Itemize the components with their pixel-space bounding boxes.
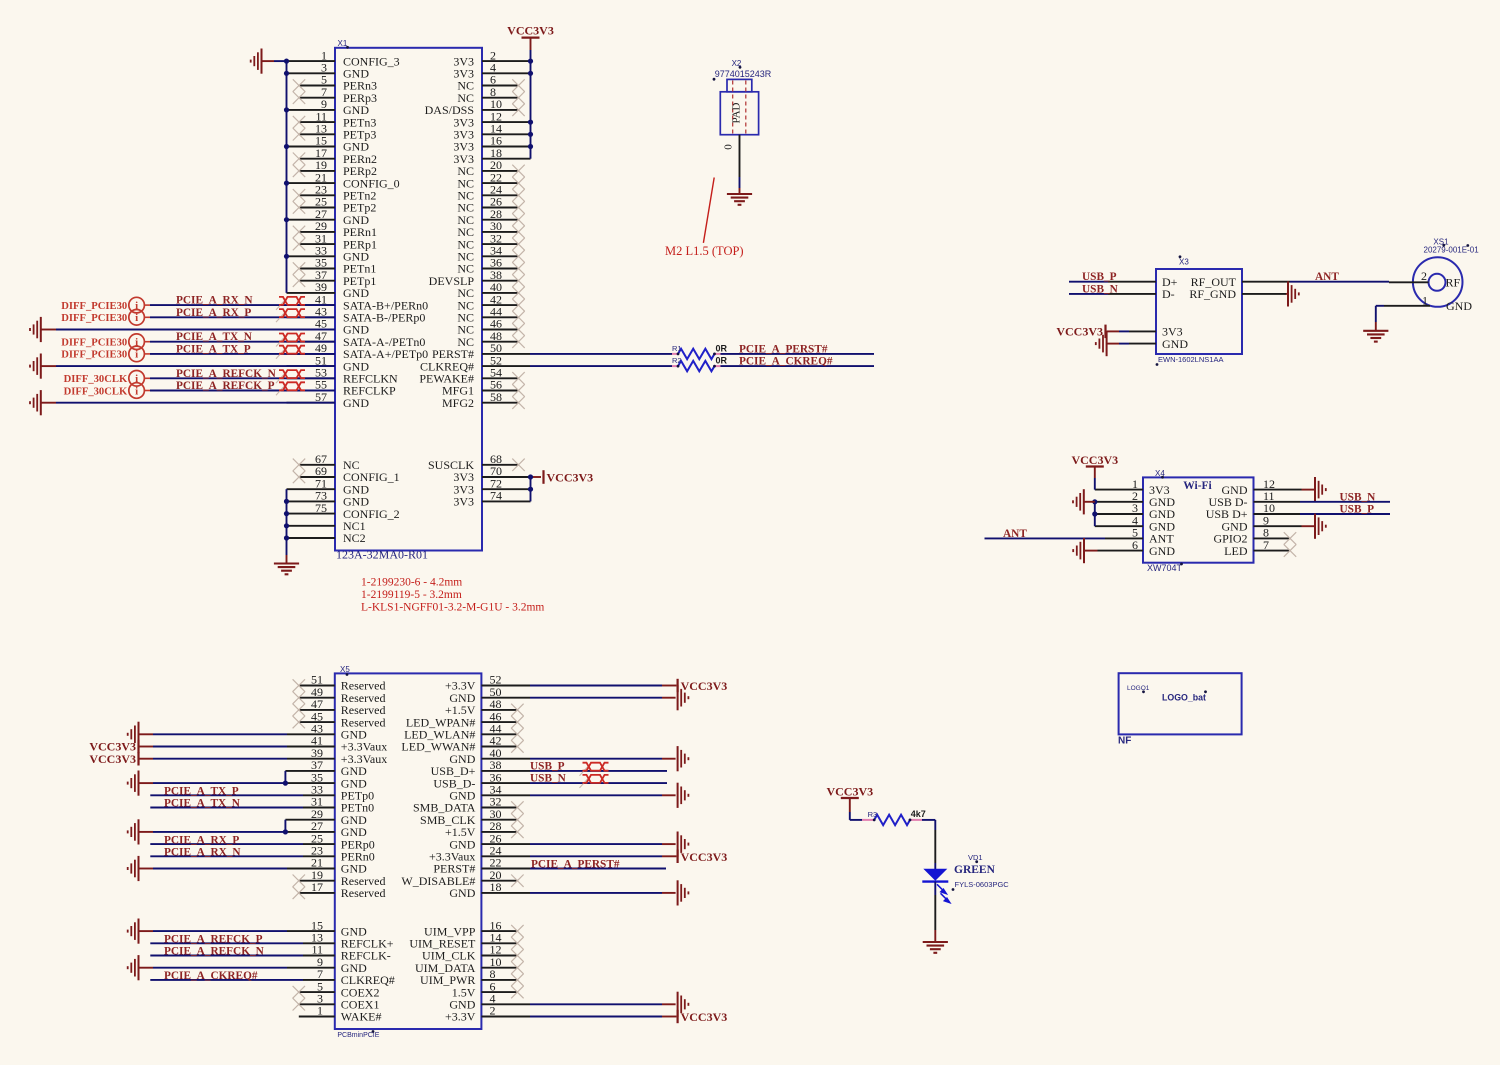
svg-text:MFG2: MFG2 [442, 396, 474, 410]
net label PCIE_A_CKREQ# [164, 970, 258, 982]
wire net PCIE_A_TX_P to X5 pin 33 [150, 794, 303, 796]
X1 pin 48 NC [457, 329, 518, 349]
svg-text:+3.3V: +3.3V [445, 1010, 476, 1024]
X1 pin 25 PETp2 [299, 195, 376, 215]
X1 pin 13 PETp3 [299, 122, 376, 142]
no-connect X on X1 pin 17 [293, 153, 305, 165]
blanket directive DIFF_PCIE30 (circled i) [61, 334, 144, 350]
X5 part number PCBminPCIE [337, 1030, 379, 1039]
junction on GND bus at pin 9 [284, 107, 289, 112]
X5 pin 11 REFCLK- [303, 943, 391, 963]
X3 pin RF_OUT [1191, 275, 1290, 289]
no-connect X on X1 pin 8 [512, 92, 524, 104]
no-connect X on X1 pin 58 [512, 397, 524, 409]
svg-text:GND: GND [1446, 299, 1472, 313]
svg-text:XW704T: XW704T [1147, 563, 1183, 573]
junction on VCC bus at pin 12 [528, 120, 533, 125]
junction on VCC bus at pin 4 [528, 71, 533, 76]
X1 pin 67 NC [299, 452, 360, 472]
X1 part number 123A-32MA0-R01 [336, 548, 428, 562]
svg-text:VCC3V3: VCC3V3 [681, 850, 728, 864]
svg-text:D-: D- [1162, 287, 1175, 301]
X5 pin 22 PERST# [433, 856, 530, 876]
junction on bottom GND bus [284, 511, 289, 516]
net label USB_P [1340, 504, 1375, 516]
svg-text:4k7: 4k7 [911, 809, 926, 819]
XS1 pin 2 RF [1389, 269, 1461, 289]
svg-text:R3: R3 [868, 810, 878, 819]
X4 pin 12 GND [1222, 477, 1302, 497]
no-connect X on X1 pin 42 [512, 299, 524, 311]
wire VCC3V3 to X5 pin 41 [139, 746, 288, 748]
wire ground stub to GND bus [262, 60, 287, 62]
differential pair marker at X1 pin 47 [276, 334, 305, 347]
svg-text:PCIE_A_REFCK_N: PCIE_A_REFCK_N [176, 368, 277, 380]
wire GND to X5 pin 27 [139, 831, 288, 833]
svg-text:9774015243R: 9774015243R [715, 69, 772, 79]
X1 pin 58 MFG2 [442, 390, 519, 410]
net label PCIE_A_CKREQ# [739, 356, 833, 368]
wire GND from X5 pin 50 [662, 697, 676, 699]
no-connect X on X1 pin 19 [293, 165, 305, 177]
power VCC3V3 right of X1 pin 70 [544, 470, 594, 484]
X1 pin 26 NC [457, 195, 518, 215]
svg-text:ANT: ANT [1315, 271, 1339, 283]
X5 pin 6 1.5V [452, 979, 518, 999]
X1 pin 36 NC [457, 256, 518, 276]
annotation mounting options (red) [361, 577, 544, 614]
svg-text:PCIE_A_CKREQ#: PCIE_A_CKREQ# [739, 356, 833, 368]
no-connect X on X5 pin 19 [293, 875, 305, 887]
module X4 Wi-Fi body [1143, 477, 1254, 562]
svg-text:R2: R2 [672, 356, 682, 365]
no-connect X on X5 pin 47 [293, 704, 305, 716]
X3 pin D- [1108, 287, 1175, 301]
no-connect X on X5 pin 51 [293, 679, 305, 691]
X1 pin 18 3V3 [453, 146, 530, 166]
X5 pin 16 UIM_VPP [424, 918, 517, 938]
X5 pin 13 REFCLK+ [303, 931, 394, 951]
no-connect X on X1 pin 20 [512, 165, 524, 177]
wire net PCIE_A_PERST# from R1 [721, 353, 875, 355]
wire GND to X5 pin 21 [139, 868, 288, 870]
ground at X5 pin 9 [128, 955, 139, 980]
svg-text:VCC3V3: VCC3V3 [681, 1010, 728, 1024]
LED VD1 GREEN [922, 869, 950, 903]
svg-text:PCIE_A_TX_P: PCIE_A_TX_P [176, 343, 251, 355]
resistor R2 0R [672, 356, 728, 372]
no-connect X on X1 pin 29 [293, 226, 305, 238]
X1 pin 40 NC [457, 280, 518, 300]
svg-text:LED: LED [1224, 544, 1248, 558]
ground right of X5 pin 18 [678, 880, 689, 905]
net label PCIE_A_RX_P [176, 307, 251, 319]
ground at X5 pin 15 [128, 919, 139, 944]
svg-text:USB_P: USB_P [1340, 504, 1375, 516]
X1 pin 42 NC [457, 292, 518, 312]
svg-text:USB_N: USB_N [1340, 491, 1377, 503]
no-connect X on X1 pin 37 [293, 275, 305, 287]
no-connect X on X5 pin 45 [293, 716, 305, 728]
X1 pin 57 GND [287, 390, 370, 410]
designator X5 [340, 665, 350, 676]
X1 pin 2 3V3 [453, 48, 530, 68]
wire GND from X5 pin 26 [662, 843, 676, 845]
ground left of X4 pin 2 [1073, 489, 1095, 514]
junction at pin 70 [528, 474, 533, 479]
net label ANT [1315, 271, 1339, 283]
differential pair marker at X5 pin 38 [580, 763, 609, 776]
net label USB_P [530, 760, 565, 772]
X5 pin 44 LED_WLAN# [404, 722, 517, 742]
svg-text:74: 74 [490, 489, 502, 503]
no-connect X on X5 pin 48 [511, 704, 523, 716]
no-connect X on X1 pin 22 [512, 177, 524, 189]
X1 pin 29 PERn1 [299, 219, 377, 239]
X1 pin 30 NC [457, 219, 518, 239]
X1 pin 10 DAS/DSS [425, 97, 519, 117]
ground right of X5 pin 26 [678, 832, 689, 857]
X5 pin 21 GND [287, 856, 367, 876]
svg-text:PCIE_A_TX_P: PCIE_A_TX_P [164, 786, 239, 798]
ground at X5 pin 35 [128, 771, 139, 796]
wire VCC3V3 from X5 pin 2 [662, 1016, 676, 1018]
wire VCC3V3 to X5 pin 39 [139, 758, 288, 760]
junction on GND bus at pin 15 [284, 144, 289, 149]
power VCC3V3 at X5 pin 2 [678, 1010, 728, 1024]
X5 pin 43 GND [287, 722, 367, 742]
X5 pin 18 GND [449, 880, 662, 900]
X1 pin 28 NC [457, 207, 518, 227]
wire GND from X5 pin 18 [662, 892, 676, 894]
no-connect X on X1 pin 23 [293, 189, 305, 201]
ground right of X4 pin 12 [1302, 477, 1326, 502]
wire net PCIE_A_RX_N to X5 pin 23 [150, 855, 303, 857]
X5 pin 23 PERn0 [303, 844, 375, 864]
svg-text:PAD: PAD [731, 102, 743, 123]
no-connect X on X1 pin 10 [512, 104, 524, 116]
wire GND bus left of X1 pins 71-NC2 [286, 489, 288, 563]
module X3 body [1156, 269, 1242, 354]
X5 pin 5 COEX2 [299, 979, 380, 999]
X5 pin 8 UIM_PWR [420, 967, 517, 987]
wire net PCIE_A_TX_N to X5 pin 31 [150, 807, 303, 809]
net label PCIE_A_RX_P [164, 834, 239, 846]
no-connect X on X1 pin 35 [293, 262, 305, 274]
wire GND to X1 pin 51 [41, 365, 335, 367]
X5 pin 35 GND [287, 770, 367, 790]
svg-text:3V3: 3V3 [453, 495, 474, 509]
ground right of X5 pin 34 [678, 783, 689, 808]
wire VCC3V3 to R3 [850, 812, 862, 820]
svg-text:PCIE_A_RX_N: PCIE_A_RX_N [164, 847, 241, 859]
X5 pin 38 USB_D+ [431, 758, 530, 778]
wire GND from X5 pin 34 [662, 794, 676, 796]
X5 pin 33 PETp0 [303, 783, 374, 803]
no-connect X on X1 pin 40 [512, 287, 524, 299]
X5 pin 24 +3.3Vaux [429, 844, 662, 864]
X1 pin 56 MFG1 [442, 378, 519, 398]
X1 pin 46 NC [457, 317, 518, 337]
svg-text:DIFF_PCIE30: DIFF_PCIE30 [61, 301, 127, 312]
no-connect X on X1 pin 48 [512, 336, 524, 348]
X1 pin 15 GND [287, 134, 370, 154]
wire LED cathode to ground [934, 882, 936, 942]
wire net PCIE_A_REFCK_P to X1 pin 55 [144, 390, 335, 392]
X4 pin 6 GND [1098, 538, 1176, 558]
X4 pin 5 ANT [1105, 526, 1174, 546]
net label PCIE_A_TX_N [176, 331, 253, 343]
wire R3 to LED VD1 [922, 820, 935, 869]
svg-text:DIFF_PCIE30: DIFF_PCIE30 [61, 313, 127, 324]
X5 pin 1 WAKE# [299, 1004, 382, 1024]
X1 pin 24 NC [457, 183, 518, 203]
junction on GND bus at pin 21 [284, 181, 289, 186]
wire GND bus X4 pins 2-4 [1094, 502, 1096, 526]
svg-text:0R: 0R [716, 356, 728, 366]
X1 pin 34 NC [457, 244, 518, 264]
X5 pin 15 GND [287, 918, 367, 938]
X3 pin RF_GND [1189, 287, 1286, 301]
net label PCIE_A_TX_P [176, 343, 251, 355]
svg-text:VCC3V3: VCC3V3 [507, 24, 554, 38]
svg-text:GREEN: GREEN [954, 864, 996, 876]
svg-text:i: i [135, 312, 138, 324]
svg-text:VCC3V3: VCC3V3 [1071, 453, 1118, 467]
wire VCC3V3 to X4 pin 1 [1094, 478, 1096, 490]
svg-text:6: 6 [1132, 538, 1138, 552]
X5 pin 50 GND [449, 685, 662, 705]
X1 pin 44 NC [457, 305, 518, 325]
wire GND to X5 pin 35 [139, 782, 288, 784]
net label PCIE_A_PERST# [531, 859, 620, 871]
power VCC3V3 at X5 pin 39 [89, 752, 138, 766]
no-connect X on X5 pin 32 [511, 801, 523, 813]
svg-text:1-2199119-5 - 3.2mm: 1-2199119-5 - 3.2mm [361, 589, 462, 601]
X1 pin 72 3V3 [453, 476, 530, 496]
svg-text:GND: GND [343, 396, 369, 410]
X5 pin 26 GND [449, 831, 662, 851]
X5 pin 48 +1.5V [445, 697, 517, 717]
ground right of X5 pin 40 [678, 746, 689, 771]
svg-text:DIFF_30CLK: DIFF_30CLK [64, 374, 128, 385]
X4 pin 4 GND [1095, 513, 1176, 533]
wire VCC3V3 from X5 pin 52 [662, 685, 676, 687]
X5 pin 7 CLKREQ# [303, 967, 395, 987]
svg-text:RF_GND: RF_GND [1189, 287, 1236, 301]
svg-text:0: 0 [723, 144, 735, 150]
net label USB_N [1340, 491, 1377, 503]
svg-text:20279-001E-01: 20279-001E-01 [1424, 246, 1480, 255]
X5 pin 10 UIM_DATA [415, 955, 517, 975]
no-connect X on X1 pin 31 [293, 238, 305, 250]
ground below XS1 [1363, 331, 1388, 342]
wire net USB_P from X5 pin 38 [530, 770, 667, 772]
X1 pin 74 3V3 [453, 489, 530, 509]
no-connect X on X5 pin 6 [511, 986, 523, 998]
junction at pin 72 [528, 487, 533, 492]
svg-text:PCIE_A_PERST#: PCIE_A_PERST# [531, 859, 620, 871]
power VCC3V3 at X3 [1056, 325, 1105, 339]
connector X5 mini PCIe body [335, 673, 482, 1029]
junction at X4 pin 2 [1092, 499, 1097, 504]
X4 pin 3 GND [1095, 501, 1175, 521]
X5 pin 34 GND [449, 783, 662, 803]
XS1 pin 1 GND [1384, 293, 1472, 313]
svg-text:PCIE_A_REFCK_P: PCIE_A_REFCK_P [176, 380, 275, 392]
X5 pin 17 Reserved [299, 880, 386, 900]
X1 pin 8 NC [457, 85, 518, 105]
X5 pin 27 GND [287, 819, 367, 839]
svg-text:2: 2 [1421, 269, 1427, 283]
net label PCIE_A_RX_N [164, 847, 241, 859]
X1 pin 39 GND [287, 280, 370, 300]
X1 pin 49 SATA-A+/PETp0 [287, 341, 429, 361]
X5 pin 52 +3.3V [445, 673, 662, 693]
differential pair marker at X1 pin 55 [276, 382, 305, 395]
no-connect X on X5 pin 17 [293, 887, 305, 899]
net label PCIE_A_TX_N [164, 798, 241, 810]
resistor R3 4k7 [862, 809, 926, 825]
svg-text:LOGO1: LOGO1 [1127, 685, 1150, 692]
wire net ANT X3 to XS1 [1290, 281, 1389, 283]
X3 part number EWN-1602LNS1AA [1156, 355, 1224, 366]
wire GND to X5 pin 43 [139, 733, 288, 735]
X1 pin 19 PERp2 [299, 158, 377, 178]
X1 pin 54 PEWAKE# [419, 366, 518, 386]
wire net ANT to X4 pin 5 [985, 537, 1106, 539]
net label USB_N [1082, 283, 1119, 295]
wire net USB_N from X4 pin 11 [1300, 501, 1390, 503]
X5 pin 51 Reserved [299, 673, 386, 693]
junction on GND bus at pin 1 [284, 59, 289, 64]
X5 pin 30 SMB_CLK [420, 807, 517, 827]
designator LOGO1 [1127, 685, 1150, 693]
svg-text:PCIE_A_TX_N: PCIE_A_TX_N [164, 798, 241, 810]
svg-text:USB_P: USB_P [1082, 271, 1117, 283]
X5 pin 39 +3.3Vaux [287, 746, 387, 766]
svg-text:1: 1 [1422, 293, 1428, 307]
svg-text:PCIE_A_PERST#: PCIE_A_PERST# [739, 343, 828, 355]
X5 pin 32 SMB_DATA [413, 795, 517, 815]
svg-text:VCC3V3: VCC3V3 [826, 785, 873, 799]
X1 pin 69 CONFIG_1 [299, 464, 400, 484]
X1 pin 35 PETn1 [299, 256, 376, 276]
ground at X5 pin 43 [128, 722, 139, 747]
no-connect X on X5 pin 30 [511, 814, 523, 826]
blanket directive DIFF_PCIE30 (circled i) [61, 346, 144, 362]
net label PCIE_A_REFCK_P [164, 934, 263, 946]
wire X5 pin 37 corner to bus below [284, 771, 286, 783]
X4 pin 11 USB D- [1208, 489, 1300, 509]
X1 pin 14 3V3 [453, 122, 530, 142]
no-connect X on X4 pin 7 [1284, 544, 1296, 556]
wire net PCIE_A_RX_N to X1 pin 41 [144, 304, 335, 306]
ground left of X4 pin 6 [1073, 538, 1097, 563]
svg-text:M2 L1.5 (TOP): M2 L1.5 (TOP) [665, 244, 744, 258]
no-connect X on X1 pin 67 [293, 459, 305, 471]
net label USB_N [530, 773, 567, 785]
svg-text:58: 58 [490, 390, 502, 404]
X5 pin 41 +3.3Vaux [287, 734, 387, 754]
svg-text:USB_P: USB_P [530, 760, 565, 772]
wire net PCIE_A_CKREQ# to X5 pin 7 [150, 979, 303, 981]
X5 pin 45 Reserved [299, 709, 386, 729]
X5 pin 28 +1.5V [445, 819, 517, 839]
no-connect X on X1 pin 30 [512, 226, 524, 238]
junction on VCC bus at pin 14 [528, 132, 533, 137]
junction on GND bus at pin 3 [284, 71, 289, 76]
junction on bottom GND bus [284, 499, 289, 504]
net label USB_P [1082, 271, 1117, 283]
X1 pin 32 NC [457, 231, 518, 251]
X4 pin 10 USB D+ [1206, 501, 1300, 521]
X1 pin 23 PETn2 [299, 183, 376, 203]
X1 pin 37 PETp1 [299, 268, 376, 288]
annotation M2 L1.5 (TOP) [665, 244, 744, 258]
ground below LED [923, 942, 948, 953]
net label PCIE_A_REFCK_N [176, 368, 277, 380]
VD1 part number FYLS-0603PGC [952, 880, 1010, 891]
power VCC3V3 at X5 pin 41 [89, 740, 138, 754]
svg-text:1-2199230-6 - 4.2mm: 1-2199230-6 - 4.2mm [361, 577, 462, 589]
svg-text:USB_N: USB_N [1082, 283, 1119, 295]
differential pair marker at X1 pin 49 [276, 346, 305, 359]
X1 pin 27 GND [287, 207, 370, 227]
X5 pin 31 PETn0 [303, 795, 374, 815]
X3 pin 3V3 [1107, 325, 1183, 339]
no-connect X on X4 pin 8 [1284, 532, 1296, 544]
wire X2 pad to ground [739, 177, 741, 194]
no-connect X on X1 pin 24 [512, 189, 524, 201]
power VCC3V3 above X1 [507, 24, 554, 51]
no-connect X on X1 pin 34 [512, 250, 524, 262]
svg-text:VD1: VD1 [968, 853, 983, 862]
wire net PCIE_A_RX_P to X1 pin 43 [144, 316, 335, 318]
ground right of X5 pin 50 [678, 685, 689, 710]
X5 pin 19 Reserved [299, 868, 386, 888]
differential pair marker at X5 pin 36 [580, 775, 609, 788]
no-connect X on X5 pin 5 [293, 986, 305, 998]
no-connect X on X1 pin 13 [293, 128, 305, 140]
net label PCIE_A_REFCK_P [176, 380, 275, 392]
no-connect X on X1 pin 28 [512, 214, 524, 226]
X1 pin 43 SATA-B-/PERp0 [287, 305, 426, 325]
X5 pin 9 GND [287, 955, 367, 975]
svg-text:RF: RF [1446, 275, 1461, 289]
wire VCC3V3 from X5 pin 24 [662, 855, 676, 857]
no-connect X on X1 pin 46 [512, 323, 524, 335]
svg-text:GND: GND [1149, 544, 1175, 558]
junction on GND bus at pin 33 [284, 254, 289, 259]
junction on VCC bus at pin 2 [528, 59, 533, 64]
pad X2 body [720, 79, 758, 134]
designator X3 [1179, 255, 1190, 266]
no-connect X on X1 pin 26 [512, 201, 524, 213]
no-connect X on X5 pin 12 [511, 949, 523, 961]
X5 pin 42 LED_WWAN# [401, 734, 517, 754]
blanket directive DIFF_30CLK (circled i) [64, 371, 145, 387]
svg-text:PCIE_A_RX_P: PCIE_A_RX_P [176, 307, 251, 319]
svg-text:GND: GND [449, 886, 475, 900]
no-connect X on X1 pin 6 [512, 79, 524, 91]
ground at X5 pin 27 [128, 819, 139, 844]
no-connect X on X1 pin 5 [293, 79, 305, 91]
net label PCIE_A_RX_N [176, 295, 253, 307]
X1 pin 16 3V3 [453, 134, 530, 154]
X3 pin GND [1119, 337, 1188, 351]
X1 pin 6 NC [457, 73, 518, 93]
